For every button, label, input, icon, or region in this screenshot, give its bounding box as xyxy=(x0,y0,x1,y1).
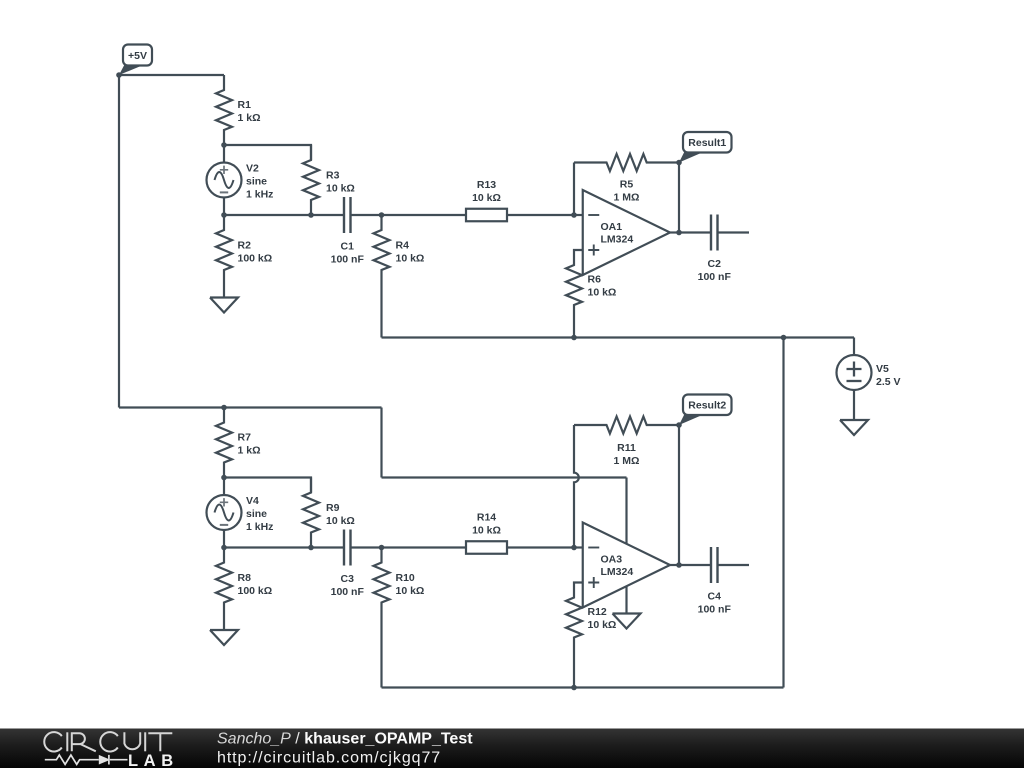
op-amp OA1 xyxy=(583,190,670,275)
svg-text:R14: R14 xyxy=(477,511,496,523)
wire bottom bus xyxy=(382,686,784,688)
resistor R14 xyxy=(466,511,507,553)
footer CircuitLab logo xyxy=(44,732,172,751)
svg-text:10 kΩ: 10 kΩ xyxy=(396,585,425,597)
svg-text:100 nF: 100 nF xyxy=(698,271,732,283)
svg-text:1 kΩ: 1 kΩ xyxy=(238,112,261,124)
svg-text:C4: C4 xyxy=(708,590,722,602)
svg-text:R12: R12 xyxy=(588,606,607,618)
wire C4 right lead xyxy=(718,564,750,566)
wire V2 bottom lead xyxy=(223,198,225,216)
flag +5V xyxy=(119,45,152,76)
svg-text:R1: R1 xyxy=(238,99,252,111)
wire mid vertical link xyxy=(782,338,784,688)
svg-text:OA3: OA3 xyxy=(601,554,623,566)
svg-text:Result2: Result2 xyxy=(688,400,726,412)
svg-text:R6: R6 xyxy=(588,273,602,285)
wire Result1 to output xyxy=(678,163,680,233)
node bus/mid vertical junction xyxy=(781,335,787,341)
svg-text:10 kΩ: 10 kΩ xyxy=(472,524,501,536)
svg-text:1 MΩ: 1 MΩ xyxy=(614,191,640,203)
svg-text:100 nF: 100 nF xyxy=(698,603,732,615)
resistor R12 xyxy=(566,583,616,653)
node R6/bus junction xyxy=(571,335,577,341)
svg-text:10 kΩ: 10 kΩ xyxy=(326,182,355,194)
svg-text:http://circuitlab.com/cjkgq77: http://circuitlab.com/cjkgq77 xyxy=(217,750,441,767)
capacitor C2 xyxy=(698,215,732,283)
svg-text:10 kΩ: 10 kΩ xyxy=(326,515,355,527)
node R5/Result1 junction xyxy=(676,160,682,166)
svg-text:100 nF: 100 nF xyxy=(331,586,365,598)
svg-text:10 kΩ: 10 kΩ xyxy=(396,253,425,265)
resistor R6 xyxy=(566,250,616,320)
wire node to R3 top xyxy=(224,145,311,160)
wire C2 right lead xyxy=(718,231,750,233)
svg-text:LAB: LAB xyxy=(128,752,179,768)
svg-text:C3: C3 xyxy=(341,573,355,585)
node R3 bottom junction xyxy=(308,212,314,218)
node R1/V2/R3 junction xyxy=(221,142,227,148)
wire node to R9 top xyxy=(224,478,311,493)
footer title text xyxy=(217,731,473,767)
node R9 bottom junction xyxy=(308,545,314,551)
wire OA3 VS- pin xyxy=(625,586,627,601)
resistor R10 xyxy=(374,548,425,618)
resistor R5 xyxy=(574,154,679,203)
wire output to C2 xyxy=(679,231,711,233)
svg-text:LM324: LM324 xyxy=(601,566,634,578)
wire C3 to OA3 input xyxy=(351,546,575,548)
capacitor C1 xyxy=(331,197,365,265)
resistor R4 xyxy=(374,215,425,285)
capacitor C4 xyxy=(698,547,732,615)
svg-text:1 kHz: 1 kHz xyxy=(246,188,273,200)
svg-text:V4: V4 xyxy=(246,495,259,507)
wire reference bus top xyxy=(382,336,855,338)
svg-text:1 kHz: 1 kHz xyxy=(246,521,273,533)
resistor R7 xyxy=(216,408,261,478)
svg-text:R2: R2 xyxy=(238,240,252,252)
svg-text:sine: sine xyxy=(246,175,267,187)
wire +5V rail top horizontal xyxy=(119,74,224,76)
voltage source V5 xyxy=(837,355,901,390)
wire +5V feed down xyxy=(380,408,382,478)
svg-text:V5: V5 xyxy=(876,363,889,375)
svg-text:1 MΩ: 1 MΩ xyxy=(614,455,640,467)
svg-text:R10: R10 xyxy=(396,572,415,584)
node OA1 output junction xyxy=(676,230,682,236)
svg-text:R13: R13 xyxy=(477,179,496,191)
ground below OA3 xyxy=(613,601,641,629)
resistor R3 xyxy=(303,145,355,215)
flag Result2 xyxy=(679,395,732,426)
svg-text:R8: R8 xyxy=(238,572,252,584)
node R12/bottom bus junction xyxy=(571,685,577,691)
svg-text:R5: R5 xyxy=(620,178,634,190)
wire R6 to reference bus xyxy=(573,320,575,338)
wire C1 to op-amp input xyxy=(351,214,575,216)
svg-text:sine: sine xyxy=(246,508,267,520)
svg-text:10 kΩ: 10 kΩ xyxy=(588,286,617,298)
flag Result1 xyxy=(679,132,732,163)
svg-text:LM324: LM324 xyxy=(601,234,634,246)
footer bar xyxy=(0,729,1024,768)
node R7 top junction xyxy=(221,405,227,411)
svg-text:V2: V2 xyxy=(246,162,259,174)
ground below V5 xyxy=(840,408,868,436)
svg-text:100 kΩ: 100 kΩ xyxy=(238,585,273,597)
wire OA1 plus input jog xyxy=(574,249,583,251)
resistor R8 xyxy=(216,548,272,618)
wire R4 to reference bus xyxy=(380,285,382,338)
svg-text:R11: R11 xyxy=(617,442,636,454)
wire +5V feed to OA3 supply xyxy=(382,476,627,478)
node R13/OA1 minus junction xyxy=(571,212,577,218)
node V2/R2 junction xyxy=(221,212,227,218)
ground below R8 xyxy=(210,618,238,646)
svg-text:R9: R9 xyxy=(326,502,340,514)
node C1/R4 junction xyxy=(379,212,385,218)
wire Result2 to output xyxy=(678,425,680,565)
resistor R9 xyxy=(303,478,355,548)
wire OA3 plus input jog xyxy=(574,581,583,583)
node R11/Result2 junction xyxy=(676,422,682,428)
wire signal to C3 xyxy=(224,546,344,548)
wire V2 top lead xyxy=(223,145,225,163)
node V4/R8 junction xyxy=(221,545,227,551)
wire +5V rail vertical xyxy=(118,75,120,408)
svg-text:R7: R7 xyxy=(238,431,252,443)
wire R11 left vertical with hop xyxy=(574,425,579,548)
wire R10 to bottom bus xyxy=(380,618,382,688)
svg-text:Sancho_P / khauser_OPAMP_Test: Sancho_P / khauser_OPAMP_Test xyxy=(217,731,473,748)
node R14/OA3 minus junction xyxy=(571,545,577,551)
wire OA3 VS+ pin xyxy=(625,478,627,544)
svg-text:100 nF: 100 nF xyxy=(331,253,365,265)
svg-text:100 kΩ: 100 kΩ xyxy=(238,253,273,265)
wire R5 left vertical xyxy=(573,163,575,216)
node R7/V4/R9 junction xyxy=(221,475,227,481)
svg-text:C1: C1 xyxy=(341,240,355,252)
voltage source V2 xyxy=(207,162,274,200)
svg-text:2.5 V: 2.5 V xyxy=(876,376,901,388)
resistor R2 xyxy=(216,215,272,285)
wire bus to V5 xyxy=(853,338,855,356)
wire V4 bottom lead xyxy=(223,530,225,548)
svg-text:C2: C2 xyxy=(708,258,722,270)
svg-text:OA1: OA1 xyxy=(601,221,623,233)
svg-text:R3: R3 xyxy=(326,169,340,181)
wire V4 top lead xyxy=(223,478,225,496)
wire signal to C1 xyxy=(224,214,344,216)
capacitor C3 xyxy=(331,530,365,598)
wire R12 to bottom bus xyxy=(573,653,575,688)
voltage source V4 xyxy=(207,495,274,533)
svg-text:10 kΩ: 10 kΩ xyxy=(588,619,617,631)
resistor R13 xyxy=(466,179,507,221)
wire V5 bottom lead xyxy=(853,390,855,408)
wire OA3 minus input stub xyxy=(574,546,583,548)
wire +5V rail bottom horizontal xyxy=(119,406,382,408)
wire OA3 output stub xyxy=(670,564,679,566)
svg-text:R4: R4 xyxy=(396,240,410,252)
wire output to C4 xyxy=(679,564,711,566)
ground below R2 xyxy=(210,285,238,313)
resistor R1 xyxy=(216,75,261,145)
svg-text:1 kΩ: 1 kΩ xyxy=(238,444,261,456)
node C3/R10 junction xyxy=(379,545,385,551)
svg-text:Result1: Result1 xyxy=(688,137,726,149)
svg-text:+5V: +5V xyxy=(128,50,147,62)
node OA3 output junction xyxy=(676,562,682,568)
svg-text:10 kΩ: 10 kΩ xyxy=(472,192,501,204)
node +5V junction xyxy=(116,72,122,78)
wire OA1 minus input stub xyxy=(574,214,583,216)
resistor R11 xyxy=(574,417,679,467)
op-amp OA3 xyxy=(583,523,670,608)
wire OA1 output stub xyxy=(670,231,679,233)
